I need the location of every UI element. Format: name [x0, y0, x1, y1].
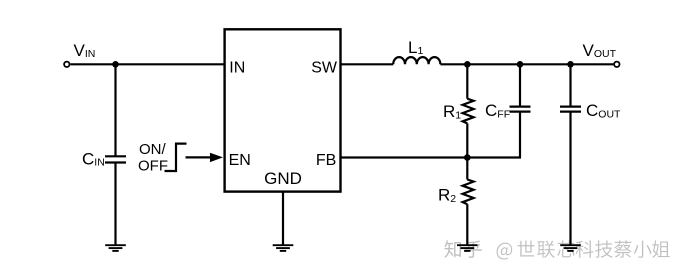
capacitor COUT	[560, 105, 581, 107]
ground GND pin	[273, 245, 294, 251]
ground R2	[457, 245, 478, 251]
svg-text:SW: SW	[311, 59, 338, 76]
wire FB line	[341, 156, 522, 158]
watermark Zhihu @世联芯科技蔡小姐	[444, 240, 669, 259]
terminal VOUT	[614, 62, 619, 67]
ground COUT	[560, 245, 581, 251]
svg-text:IN: IN	[229, 59, 245, 76]
svg-text:ON/: ON/	[139, 141, 167, 158]
node SW-R1 junction	[464, 61, 471, 68]
node input junction	[112, 61, 119, 68]
wire SW to inductor	[341, 63, 394, 65]
rising-edge step symbol	[165, 144, 187, 171]
capacitor CFF	[510, 105, 531, 107]
wire COUT upper stub	[569, 64, 571, 105]
wire GND pin stub	[282, 192, 284, 245]
wire R1 upper stub	[466, 64, 468, 98]
resistor R2	[463, 180, 474, 205]
svg-text:FB: FB	[316, 152, 336, 169]
wire COUT lower stub	[569, 112, 571, 245]
svg-text:GND: GND	[264, 169, 302, 188]
wire CFF upper stub	[519, 64, 521, 105]
arrowhead into EN pin	[210, 153, 223, 162]
inductor L1	[393, 57, 440, 64]
ground CIN	[105, 245, 126, 251]
resistor R1	[463, 99, 474, 124]
wire CIN branch lower	[114, 163, 116, 245]
svg-text:OFF: OFF	[138, 158, 168, 175]
wire CIN branch upper	[114, 64, 116, 155]
wire EN arrow line	[186, 156, 213, 158]
wire output rail	[440, 63, 613, 65]
wire VIN to IN pin	[70, 63, 224, 65]
terminal VIN	[64, 62, 69, 67]
node CFF junction	[517, 61, 524, 68]
wire R2 lower stub	[466, 204, 468, 245]
IC U1 box	[225, 29, 341, 191]
node FB junction	[464, 154, 471, 161]
wire CFF lower stub	[519, 112, 521, 157]
node COUT junction	[567, 61, 574, 68]
svg-text:EN: EN	[229, 152, 251, 169]
wire R2 upper stub	[466, 158, 468, 180]
wire R1 lower stub	[466, 123, 468, 157]
capacitor CIN	[105, 155, 126, 157]
